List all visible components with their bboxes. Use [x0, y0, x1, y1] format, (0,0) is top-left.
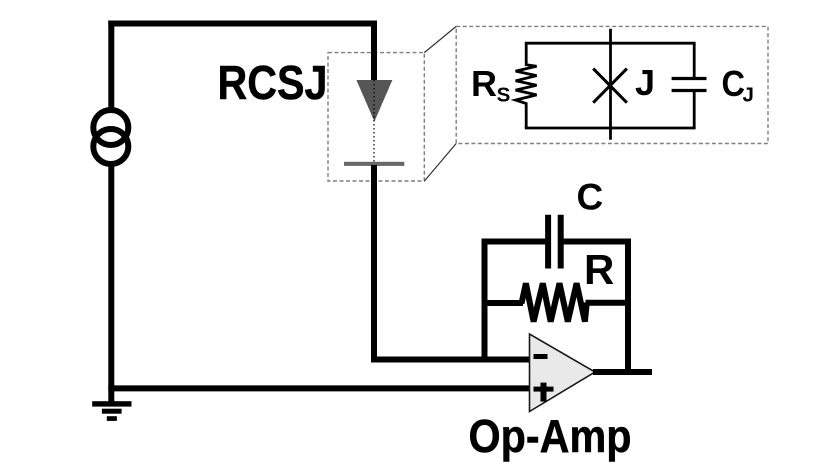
capacitor CJ plates: [672, 77, 707, 80]
svg-text:Op-Amp: Op-Amp: [469, 410, 632, 462]
josephson junction X: [593, 69, 627, 103]
wire: feedback top left segment: [482, 239, 549, 245]
RCSJ model dashed box (large, right): [456, 26, 768, 143]
node line through junction (vertical center): [609, 29, 612, 140]
wire: feedback top right segment: [561, 239, 631, 245]
top edge: [525, 42, 696, 45]
resistor R leads: [482, 300, 524, 306]
junction counter-electrode bar: [344, 162, 404, 166]
wire: junction branch vertical upper: [371, 21, 377, 81]
junction arrow (triangle) in small box: [356, 80, 392, 122]
current source I: [93, 110, 128, 164]
wire: junction branch lower + inverting input: [374, 165, 530, 360]
svg-text:J: J: [635, 62, 655, 103]
RCSJ model inner circuit rectangle: [516, 29, 707, 140]
capacitor CJ branch (right, vertical leads): [693, 43, 696, 77]
wire: top horizontal from current source to junction: [108, 21, 377, 27]
resistor R zigzag: [522, 283, 587, 321]
svg-text:RCSJ: RCSJ: [218, 57, 328, 110]
wire: left vertical lower (current source to ground): [108, 167, 114, 404]
op-amp U1: [530, 334, 596, 412]
wire: op-amp output: [593, 369, 652, 375]
feedback capacitor C plates: [548, 215, 561, 269]
projection line (bottom, small box to large box): [424, 144, 456, 182]
wire: ground rail to op-amp + input: [108, 385, 530, 391]
svg-text:S: S: [497, 84, 511, 107]
wire: feedback right vertical: [625, 239, 631, 375]
ground: [92, 401, 131, 421]
wire: left vertical upper (top wire to current source): [108, 21, 114, 109]
wire: feedback left vertical: [482, 239, 488, 362]
svg-text:C: C: [722, 63, 746, 104]
bottom edge: [525, 127, 696, 130]
resistor RS (left branch with zigzag): [516, 43, 537, 128]
svg-text:C: C: [577, 177, 604, 218]
projection line (top, small box to large box): [424, 26, 456, 52]
RCSJ zoom dashed box (small, around junction): [328, 53, 424, 181]
svg-text:R: R: [584, 246, 614, 293]
op-amp plus pin: [534, 383, 554, 402]
op-amp minus pin: [534, 354, 548, 359]
svg-text:J: J: [743, 84, 754, 107]
svg-text:R: R: [471, 63, 497, 104]
junction dotted phase line: [373, 80, 375, 162]
